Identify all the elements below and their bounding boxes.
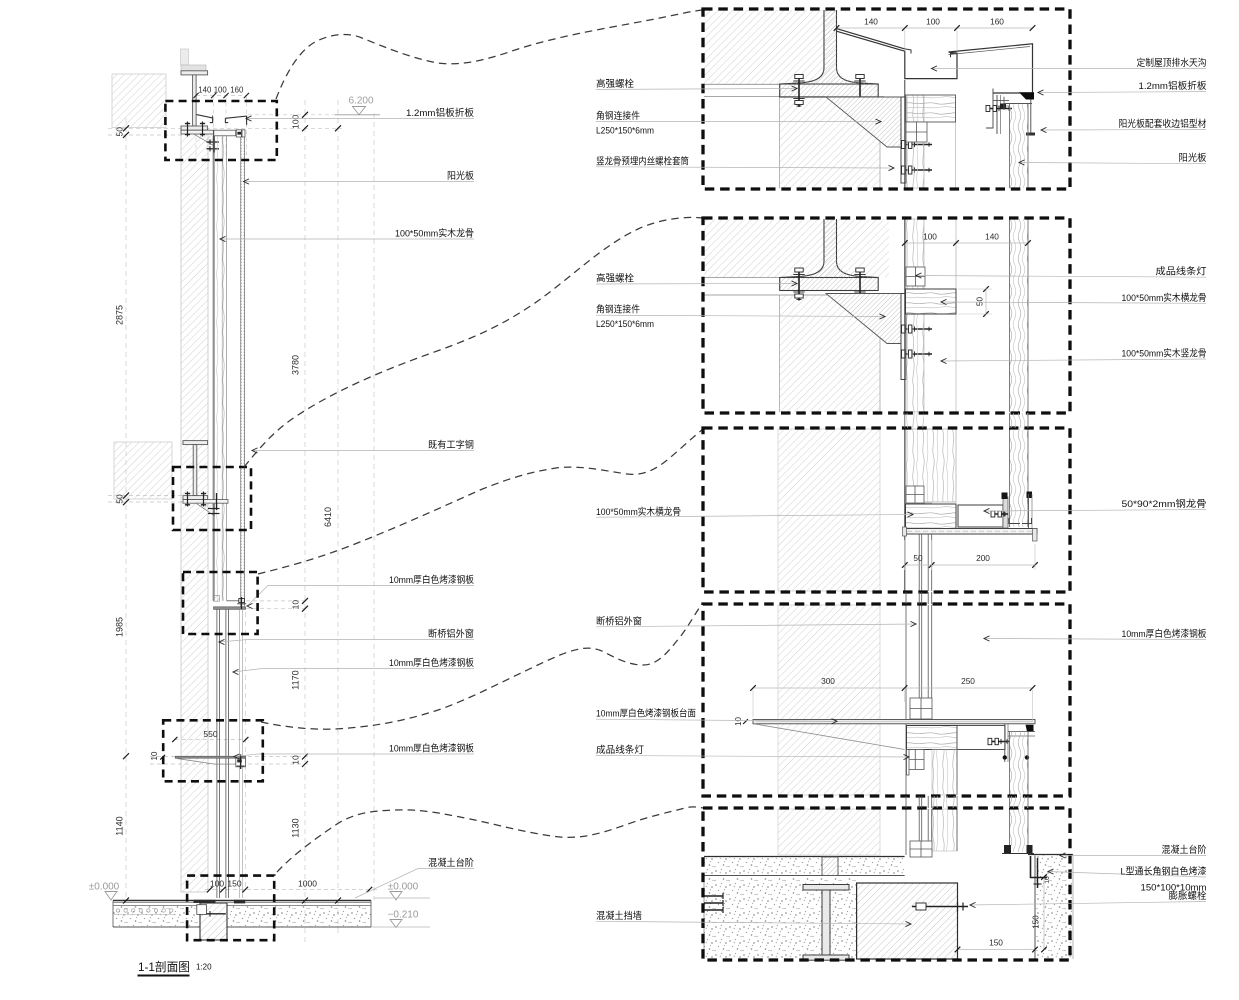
svg-text:1:20: 1:20: [196, 963, 212, 972]
dimension chain x=338: [335, 125, 341, 131]
dims detail4: [753, 687, 1033, 689]
dim 10 left of shelf: [160, 755, 165, 760]
svg-text:定制屋顶排水天沟: 定制屋顶排水天沟: [1137, 57, 1207, 69]
callout box B: [173, 467, 251, 530]
svg-text:断桥铝外窗: 断桥铝外窗: [596, 616, 642, 628]
svg-text:±0.000: ±0.000: [388, 882, 419, 893]
svg-text:100*50mm实木竖龙骨: 100*50mm实木竖龙骨: [1122, 348, 1207, 360]
aluminium edge profile detail1: [986, 89, 993, 129]
concrete step detail5: [1028, 854, 1073, 856]
horizontal wood keel detail3: [906, 504, 957, 529]
svg-text:100*50mm实木横龙骨: 100*50mm实木横龙骨: [1122, 292, 1207, 304]
svg-text:140: 140: [985, 232, 999, 242]
steel beam detail2: [780, 278, 879, 291]
svg-text:100*50mm实木横龙骨: 100*50mm实木横龙骨: [596, 506, 681, 518]
svg-text:L250*150*6mm: L250*150*6mm: [596, 319, 654, 330]
svg-text:100: 100: [291, 114, 301, 128]
top width dims 140/100/160: [196, 95, 246, 97]
wood vertical keel below detail4: [932, 750, 957, 796]
window frame detail4: [918, 605, 920, 699]
svg-text:1.2mm铝板折板: 1.2mm铝板折板: [406, 107, 474, 119]
svg-text:150*100*10mm: 150*100*10mm: [1141, 883, 1207, 894]
svg-text:角钢连接件: 角钢连接件: [596, 304, 640, 316]
svg-text:10: 10: [291, 755, 301, 765]
svg-text:竖龙骨预埋内丝螺栓套筒: 竖龙骨预埋内丝螺栓套筒: [596, 156, 689, 168]
svg-text:2875: 2875: [115, 305, 125, 325]
svg-text:10mm厚白色烤漆钢板: 10mm厚白色烤漆钢板: [389, 657, 474, 669]
reference curve 5: [277, 807, 703, 872]
svg-text:既有工字钢: 既有工字钢: [428, 439, 474, 451]
roof plate right detail1: [949, 44, 1033, 93]
dimension chain x=126: [123, 125, 129, 131]
svg-text:150: 150: [227, 879, 241, 889]
svg-text:6.200: 6.200: [348, 96, 373, 107]
svg-text:3780: 3780: [291, 355, 301, 375]
existing steel I-beam (middle): [183, 441, 208, 445]
polycarbonate panel detail2: [1010, 219, 1029, 412]
svg-text:1985: 1985: [115, 617, 125, 637]
svg-text:150: 150: [989, 938, 1003, 948]
svg-text:100: 100: [923, 232, 937, 242]
left side labels of details: [596, 88, 797, 91]
svg-text:1140: 1140: [115, 816, 125, 835]
svg-text:10mm厚白色烤漆钢板: 10mm厚白色烤漆钢板: [1122, 628, 1207, 640]
svg-text:10: 10: [734, 717, 743, 726]
svg-text:1.2mm铝板折板: 1.2mm铝板折板: [1139, 80, 1207, 92]
existing wall hatch strip: [181, 128, 208, 892]
svg-text:1130: 1130: [291, 818, 301, 837]
svg-text:300: 300: [821, 676, 835, 686]
right side labels: [932, 68, 1207, 70]
svg-text:10mm厚白色烤漆钢板: 10mm厚白色烤漆钢板: [389, 574, 474, 586]
callout box C: [183, 572, 258, 634]
top connector plate + gusset: [181, 130, 214, 134]
svg-text:角钢连接件: 角钢连接件: [596, 110, 640, 122]
dimension chain x=305: [302, 112, 308, 118]
svg-text:10: 10: [150, 751, 159, 760]
horizontal wood keel 100x50 detail2: [906, 289, 957, 314]
svg-text:160: 160: [990, 17, 1004, 27]
light fixture under counter detail4: [907, 750, 925, 770]
callout box D: [163, 720, 263, 781]
floor slab band detail5: [704, 856, 905, 858]
svg-text:高强螺栓: 高强螺栓: [596, 78, 634, 90]
svg-text:成品线条灯: 成品线条灯: [596, 744, 644, 756]
svg-text:阳光板: 阳光板: [1179, 152, 1207, 164]
bottom dims 100/150/1000: [207, 887, 213, 893]
svg-text:50: 50: [115, 127, 125, 137]
svg-text:10: 10: [291, 600, 301, 610]
reference curve 4: [261, 604, 702, 729]
svg-text:10mm厚白色烤漆钢板: 10mm厚白色烤漆钢板: [389, 743, 474, 755]
aggregate circles (left floor): [116, 909, 119, 912]
sill tracks: [194, 900, 216, 903]
steel beam detail1: [780, 84, 879, 97]
svg-text:断桥铝外窗: 断桥铝外窗: [428, 628, 474, 640]
curtain continuation between detail2 and detail3: [904, 413, 906, 428]
angle connector gusset detail2: [826, 294, 901, 344]
detail 1: roof eave / gutter: [704, 10, 1035, 189]
svg-text:L型通长角钢白色烤漆: L型通长角钢白色烤漆: [1121, 866, 1207, 878]
svg-text:100: 100: [210, 879, 224, 889]
svg-text:150: 150: [1032, 915, 1041, 929]
svg-text:混凝土台阶: 混凝土台阶: [1162, 844, 1207, 856]
detail 5: ground / concrete step: [704, 809, 1073, 960]
svg-text:50: 50: [975, 297, 985, 307]
window frame verticals: [216, 609, 218, 756]
svg-text:±0.000: ±0.000: [89, 882, 120, 893]
dims detail1: [837, 27, 1033, 29]
svg-text:100*50mm实木龙骨: 100*50mm实木龙骨: [395, 228, 474, 240]
callout box A: [165, 101, 276, 160]
concrete body below detail5: [704, 877, 857, 958]
polycarbonate panel detail3: [1010, 429, 1029, 527]
polycarbonate panel detail1: [1010, 104, 1029, 188]
svg-text:250: 250: [961, 676, 975, 686]
vertical wood keel detail1: [904, 80, 906, 188]
svg-text:混凝土挡墙: 混凝土挡墙: [596, 910, 642, 922]
curtain continuation between detail3 and detail4: [918, 592, 920, 604]
vertical wood keel detail2: [904, 219, 906, 412]
top ceiling slab hatch: [112, 74, 166, 128]
svg-text:阳光板: 阳光板: [447, 170, 474, 182]
steel keel under counter detail4: [957, 726, 1005, 750]
svg-text:成品线条灯: 成品线条灯: [1156, 266, 1208, 278]
left view annotation labels: [246, 118, 474, 120]
counter top plate detail4: [753, 720, 1035, 724]
shelf plate (box D): [175, 756, 245, 758]
svg-text:高强螺栓: 高强螺栓: [596, 273, 634, 285]
svg-text:阳光板配套收边铝型材: 阳光板配套收边铝型材: [1119, 118, 1207, 130]
horizontal wood blocking detail1: [906, 95, 956, 122]
svg-text:10: 10: [1044, 876, 1051, 884]
50x90 steel keel detail3: [958, 505, 1003, 527]
svg-text:混凝土台阶: 混凝土台阶: [428, 857, 474, 869]
svg-text:1-1剖面图: 1-1剖面图: [138, 960, 190, 974]
polycarbonate below counter detail4: [1010, 732, 1029, 796]
angle connector gusset detail1: [826, 97, 901, 147]
extension lines: [248, 114, 338, 116]
window frame below detail3: [918, 534, 920, 591]
dim 550 (box D): [172, 737, 177, 742]
mid floor slab hatch: [114, 442, 172, 499]
10mm painted steel plate soffit detail3: [904, 529, 1037, 535]
reference curve 1: [276, 10, 703, 99]
svg-text:L250*150*6mm: L250*150*6mm: [596, 126, 654, 137]
svg-text:200: 200: [976, 553, 990, 563]
svg-text:1000: 1000: [298, 879, 317, 889]
svg-text:50: 50: [115, 494, 125, 504]
callout box E: [187, 876, 274, 941]
folded aluminium plate (1.2mm): [197, 115, 213, 123]
svg-text:550: 550: [203, 729, 217, 739]
wood keel above window detail3: [906, 429, 956, 502]
svg-text:10mm厚白色烤漆钢板台面: 10mm厚白色烤漆钢板台面: [596, 708, 696, 720]
anchor bolt in block detail5: [912, 906, 968, 908]
dims detail2: [905, 242, 1028, 244]
curtain continuation between detail4 and detail5: [905, 796, 907, 808]
window head assembly (box C): [214, 596, 220, 602]
svg-text:1170: 1170: [291, 670, 301, 689]
detail 2: mid slab connection: [704, 219, 1031, 412]
existing steel I-beam (top): [181, 49, 189, 65]
svg-text:140: 140: [198, 86, 212, 95]
left section view: construction grid lines: [125, 118, 127, 902]
dims detail3: [905, 564, 1035, 566]
dims detail5: [958, 949, 1036, 951]
polycarbonate sheet (left view): [241, 138, 245, 607]
edge clamp profile detail4: [1004, 724, 1006, 762]
reference curve 3: [258, 429, 703, 574]
ground / floor build-up: [113, 900, 371, 902]
wood keel under counter detail4: [907, 726, 958, 750]
svg-text:140: 140: [864, 17, 878, 27]
mid connector plate + gusset: [183, 500, 228, 504]
svg-text:160: 160: [230, 86, 244, 95]
svg-text:−0.210: −0.210: [388, 910, 419, 921]
svg-text:100: 100: [926, 17, 940, 27]
L angle at step edge detail5: [1031, 856, 1048, 878]
svg-text:50: 50: [913, 553, 923, 563]
concrete retaining block detail5: [857, 883, 958, 959]
concrete retaining block under sill: [200, 903, 227, 940]
detail 4: window sill / counter top: [734, 605, 1035, 795]
detail 3: window head / steel keel: [778, 429, 1038, 591]
curtain wall mullion (wood keel): [212, 136, 214, 601]
roof gutter detail1: [837, 29, 958, 79]
svg-text:50*90*2mm钢龙骨: 50*90*2mm钢龙骨: [1122, 498, 1207, 510]
reference curve 2: [244, 217, 703, 467]
svg-text:100: 100: [214, 86, 228, 95]
head member right of beam: [214, 130, 236, 136]
embedded I-beam detail5: [803, 885, 849, 891]
svg-text:6410: 6410: [323, 507, 333, 527]
curtain base above ground detail5: [905, 809, 907, 855]
